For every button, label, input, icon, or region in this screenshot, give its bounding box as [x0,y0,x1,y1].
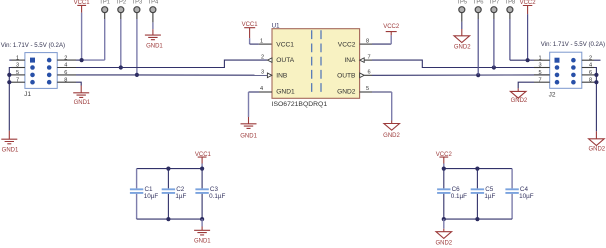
svg-text:4: 4 [260,86,263,92]
test point TP7 [489,0,500,19]
wire OUTA net J1.4 to U1.2 [76,60,268,67]
wire VCC2 stem to J2 pin1 net [527,14,529,60]
svg-text:TP8: TP8 [505,0,516,5]
svg-text:8: 8 [366,38,369,44]
svg-text:GND2: GND2 [511,98,528,104]
svg-text:Vin: 1.71V - 5.5V (0.2A): Vin: 1.71V - 5.5V (0.2A) [1,42,65,49]
ground GND1 (bottom left) [1,131,19,154]
svg-text:GND1: GND1 [194,239,211,245]
wire VCC1 to cap rail [201,164,203,169]
connector J2 [549,52,582,98]
power symbol VCC2 (right cap bank) [436,152,453,164]
wire left cap bank bottom rail [137,218,203,220]
wire TP3 to INB net [136,19,138,75]
capacitor C6 0.1uF [437,169,467,220]
svg-text:U1: U1 [272,23,280,29]
power symbol VCC2 (at U1 pin8) [383,24,400,35]
test point TP2 [115,0,126,19]
ground GND2 (right cap bank) [435,229,452,247]
svg-text:GND2: GND2 [435,241,452,247]
wire VCC1 stem to J1 pin2 net [81,13,83,61]
wire right cap bank top rail [444,168,512,170]
junction C2 top [166,167,170,171]
svg-text:VCC1: VCC1 [242,22,259,28]
ground GND2 (under U1 pin5) [383,121,400,140]
svg-text:1: 1 [260,38,263,44]
svg-text:1µF: 1µF [175,193,186,200]
wire INA net U1.7 to J2.3 [364,59,372,61]
ground GND2 (under J2 pin7) [510,88,527,103]
svg-text:GND1: GND1 [276,89,295,96]
junction TP2/OUTA [119,65,123,69]
op-amp U1 (digital isolator ISO6721BQDRQ1) [272,23,360,107]
wire cap rail to GND2 [443,219,445,229]
wire TP6 to OUTB net [477,19,479,75]
test point TP3 [132,0,143,19]
junction bus pin6 [594,73,598,77]
svg-text:10µF: 10µF [144,193,159,200]
svg-text:TP7: TP7 [489,0,500,5]
junction bus pin7 [7,80,11,84]
svg-text:1µF: 1µF [484,193,495,200]
power symbol VCC2 (top right) [520,0,537,14]
wire J2 pin1 to VCC2/TP8 [510,59,534,61]
svg-text:TP2: TP2 [115,0,126,5]
wire U1 pin4 to ground [249,91,260,93]
svg-text:0.1µF: 0.1µF [451,193,467,200]
wire TP8 to J2 pin1 net [509,19,511,60]
svg-text:GND2: GND2 [454,44,471,50]
svg-text:TP6: TP6 [473,0,484,5]
wire right cap bank bottom rail [444,218,512,220]
svg-text:GND2: GND2 [337,89,356,96]
svg-text:GND1: GND1 [74,100,91,106]
svg-text:INB: INB [276,73,288,80]
svg-text:GND1: GND1 [146,44,163,50]
wire INB net J1.6 to U1.3 [76,74,267,76]
svg-text:VCC2: VCC2 [520,0,537,6]
svg-text:TP5: TP5 [456,0,467,5]
svg-text:ISO6721BQDRQ1: ISO6721BQDRQ1 [272,101,328,108]
svg-text:GND2: GND2 [588,146,605,152]
wire VCC2 to cap rail [443,164,445,169]
junction TP3/INB [135,73,139,77]
svg-text:GND2: GND2 [383,133,400,139]
capacitor C4 10uF [505,169,533,220]
wire U1 pin5 to ground [372,91,392,93]
svg-text:TP1: TP1 [99,0,110,5]
junction C6 top [442,167,446,171]
junction C2 bottom [166,217,170,221]
svg-text:VCC2: VCC2 [338,41,356,48]
test point TP4 [148,0,159,22]
svg-text:INA: INA [344,57,356,64]
test point TP8 [505,0,516,19]
junction bus pin5 [7,73,11,77]
test point TP1 [99,0,110,19]
svg-text:Vin: 1.71V - 5.5V (0.2A): Vin: 1.71V - 5.5V (0.2A) [541,41,605,48]
wire J2 right ground bus [594,68,596,132]
ground GND1 (under TP4) [145,29,163,49]
wire left cap bank top rail [137,168,203,170]
wire J2 pin7 to ground [518,82,534,88]
connector J1 [24,53,57,99]
svg-text:TP3: TP3 [132,0,143,5]
power symbol VCC1 (left cap bank) [195,152,212,164]
wire TP2 to OUTA net [120,19,122,68]
junction C3 top [200,167,204,171]
isolation barrier dashed lines [312,30,321,92]
ground GND1 (under U1 pin4) [240,117,257,140]
wire TP1 to VCC1 net [104,19,106,60]
junction VCC1 stem [80,58,84,62]
wire J1 pin2 to VCC1/TP1 [76,59,82,61]
svg-text:7: 7 [367,54,370,60]
power symbol VCC1 (top left) [74,0,91,13]
svg-text:TP4: TP4 [148,0,159,5]
junction VCC2 stem [526,58,530,62]
junction TP7/INA [492,65,496,69]
wire J1 left ground bus [9,68,11,131]
ground GND2 (under TP5) [454,29,471,50]
power symbol VCC1 (at U1 pin1) [242,22,259,38]
wire TP5 to ground [461,22,463,29]
svg-text:OUTA: OUTA [276,57,294,64]
wire OUTB net U1.6 to J2.5 [364,74,372,76]
test point TP6 [473,0,484,19]
svg-text:VCC1: VCC1 [276,41,294,48]
junction bus pin8 [594,80,598,84]
wire U1 pin8 to VCC2 [372,43,391,45]
junction TP6/OUTB [476,73,480,77]
svg-text:VCC2: VCC2 [383,24,400,30]
capacitor C2 1uF [162,169,187,220]
svg-text:J1: J1 [24,91,31,98]
svg-text:5: 5 [366,86,369,92]
junction C5 bottom [475,217,479,221]
svg-text:3: 3 [261,70,264,76]
svg-text:0.1µF: 0.1µF [209,193,225,200]
capacitor C1 10uF [130,169,158,220]
wire J1 pin8 to ground [76,82,81,85]
svg-text:2: 2 [261,54,264,60]
capacitor C5 1uF [471,169,496,220]
capacitor C3 0.1uF [195,169,225,220]
svg-text:10µF: 10µF [519,193,534,200]
ground GND1 (under J1 pin8) [73,86,91,107]
wire VCC1 to U1 pin1 [249,38,251,44]
svg-text:GND1: GND1 [2,147,19,153]
svg-text:OUTB: OUTB [337,73,356,80]
svg-text:J2: J2 [549,92,556,99]
svg-text:6: 6 [367,70,370,76]
test point TP5 [456,0,467,22]
wire TP4 to ground [152,22,154,29]
junction C5 top [475,167,479,171]
junction C6 bottom [442,217,446,221]
ground GND1 (left cap bank) [194,227,211,245]
wire TP7 to INA net [493,19,495,68]
ground GND2 (bottom right) [588,131,605,152]
svg-text:GND1: GND1 [240,134,257,140]
wire cap rail to GND1 [201,219,203,226]
junction C3 bottom [200,217,204,221]
